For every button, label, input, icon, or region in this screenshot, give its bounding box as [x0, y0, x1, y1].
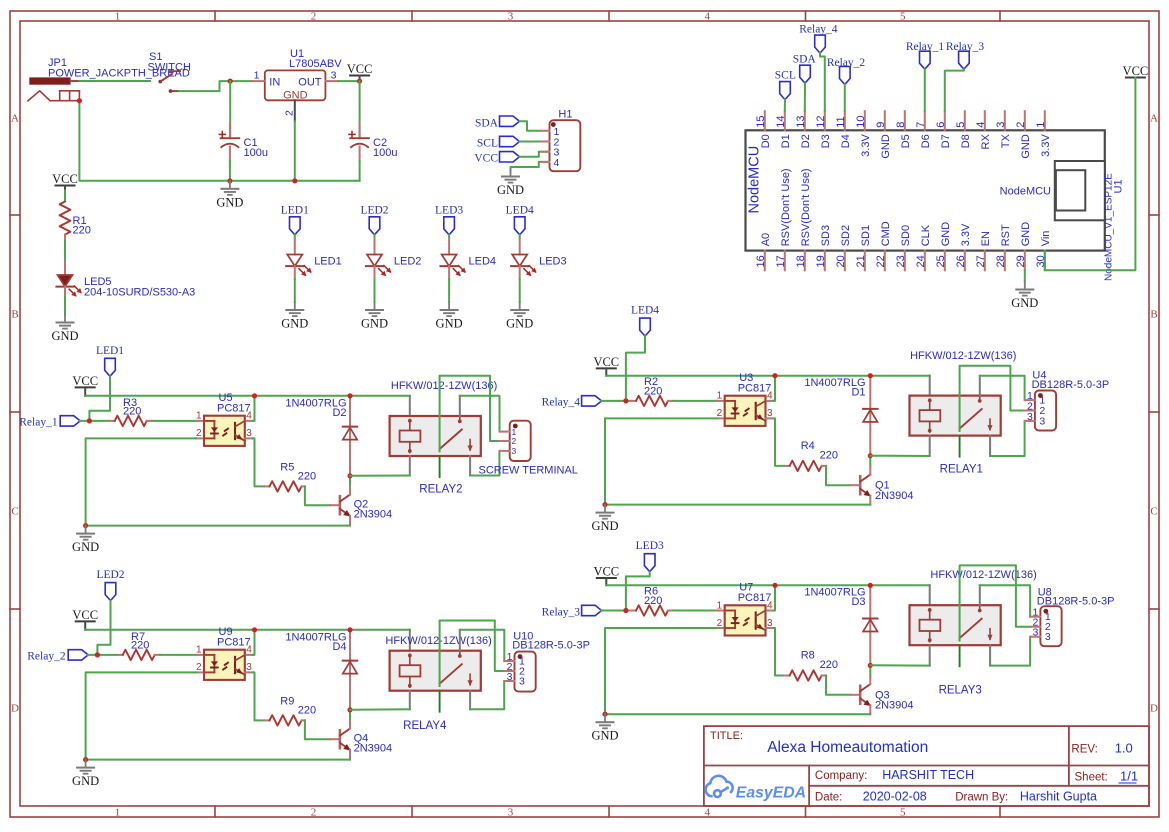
- svg-text:GND: GND: [880, 134, 892, 159]
- NodeMCU pin 12: [824, 111, 826, 130]
- relay NC pin: [469, 691, 471, 710]
- emitter wire: [869, 496, 871, 505]
- collector wire: [349, 710, 351, 721]
- LED LED1: [294, 239, 296, 255]
- svg-text:CMD: CMD: [880, 221, 892, 246]
- resistor R1: [60, 202, 71, 235]
- NodeMCU pin 4: [984, 111, 986, 130]
- svg-text:D8: D8: [960, 134, 972, 148]
- svg-text:4: 4: [554, 157, 560, 169]
- wire diode junction to coil: [870, 455, 929, 457]
- ground: [294, 302, 296, 309]
- relay coil top wire: [409, 630, 411, 651]
- wire SDA to D2: [804, 83, 806, 111]
- NodeMCU pin 18: [804, 251, 806, 271]
- NodeMCU pin 7: [924, 111, 926, 130]
- wire VCC to R1: [64, 191, 66, 202]
- svg-text:RELAY3: RELAY3: [939, 685, 982, 697]
- wire LED4 to node: [626, 336, 645, 401]
- svg-text:1: 1: [196, 645, 202, 656]
- wire LED1 to node: [89, 376, 110, 421]
- wire common to connector pin2: [440, 621, 505, 686]
- wire NO to connector pin1: [980, 585, 1031, 616]
- svg-text:18: 18: [795, 255, 807, 267]
- svg-text:GND: GND: [506, 317, 533, 331]
- svg-text:220: 220: [644, 595, 662, 607]
- NodeMCU pin 21: [864, 251, 866, 271]
- NodeMCU pin 6: [944, 111, 946, 130]
- wire pin3 to R5: [253, 438, 265, 486]
- svg-text:2: 2: [284, 110, 296, 116]
- relay NO pin wire: [979, 585, 981, 605]
- junction: [228, 79, 233, 84]
- svg-text:220: 220: [123, 406, 141, 418]
- emitter wire: [869, 705, 871, 714]
- svg-text:6: 6: [935, 122, 947, 128]
- svg-text:2N3904: 2N3904: [354, 509, 393, 521]
- screw terminal connector: [510, 421, 531, 461]
- VCC symbol: [76, 620, 95, 622]
- svg-text:1: 1: [717, 600, 723, 611]
- svg-text:Alexa Homeautomation: Alexa Homeautomation: [767, 739, 928, 756]
- svg-text:3: 3: [995, 122, 1007, 128]
- wire NC to connector pin3: [990, 637, 1030, 666]
- svg-text:L7805ABV: L7805ABV: [289, 58, 342, 70]
- svg-text:R8: R8: [801, 650, 815, 662]
- wire U1 out to VCC node: [338, 80, 360, 82]
- svg-text:Relay_3: Relay_3: [542, 606, 581, 618]
- ground: [604, 714, 606, 721]
- wire led to ground: [294, 279, 296, 302]
- svg-text:EN: EN: [980, 231, 992, 246]
- VCC symbol: [56, 185, 75, 187]
- NodeMCU pin 17: [784, 251, 786, 271]
- svg-text:REV:: REV:: [1071, 744, 1097, 756]
- junction: [77, 98, 82, 103]
- junction: [357, 79, 362, 84]
- svg-text:U1: U1: [1113, 179, 1125, 193]
- svg-text:VCC: VCC: [52, 172, 78, 186]
- wire Relay_4 to D3: [820, 53, 825, 111]
- svg-text:2020-02-08: 2020-02-08: [863, 790, 927, 804]
- svg-text:1: 1: [254, 70, 260, 82]
- svg-text:IN: IN: [269, 76, 280, 88]
- svg-text:10: 10: [855, 116, 867, 128]
- ground: [85, 760, 87, 767]
- svg-text:Vin: Vin: [1040, 231, 1052, 247]
- wire NC to connector pin3: [470, 681, 504, 709]
- svg-text:C: C: [1150, 506, 1157, 518]
- svg-text:DB128R-5.0-3P: DB128R-5.0-3P: [512, 640, 590, 652]
- svg-text:D3: D3: [851, 596, 865, 608]
- NodeMCU pin 5: [964, 111, 966, 130]
- svg-text:100u: 100u: [373, 147, 397, 159]
- junction: [252, 627, 257, 632]
- diode D2 1N4007RLG: [349, 396, 351, 476]
- svg-text:D6: D6: [920, 134, 932, 148]
- relay coil top wire: [929, 585, 931, 605]
- wire R1 to LED5: [64, 235, 66, 242]
- svg-text:GND: GND: [591, 519, 618, 533]
- svg-text:2: 2: [311, 11, 317, 23]
- wire led to ground: [374, 279, 376, 302]
- svg-text:D4: D4: [332, 641, 346, 653]
- svg-text:TX: TX: [1000, 134, 1012, 149]
- junction: [347, 707, 352, 712]
- svg-text:VCC: VCC: [1123, 64, 1149, 78]
- junction: [347, 473, 352, 478]
- wire Relay_2 to D4: [844, 85, 846, 112]
- wire pin4 to rail: [773, 585, 775, 610]
- wire SDA to H1 pin1: [520, 121, 542, 131]
- ground rail wire: [86, 525, 350, 527]
- NodeMCU pin 10: [864, 111, 866, 130]
- svg-text:3: 3: [246, 428, 252, 439]
- emitter wire: [349, 516, 351, 526]
- svg-text:LED3: LED3: [539, 255, 567, 267]
- wire pin3 to R9: [253, 672, 265, 720]
- svg-text:3: 3: [508, 807, 514, 819]
- NodeMCU pin 8: [904, 111, 906, 130]
- svg-text:4: 4: [767, 391, 773, 402]
- svg-text:HARSHIT TECH: HARSHIT TECH: [882, 768, 974, 782]
- wire Relay_1 to D6: [924, 69, 926, 111]
- wire LED1 flag to led: [294, 235, 296, 239]
- svg-text:3: 3: [508, 11, 514, 23]
- svg-text:LED1: LED1: [96, 345, 124, 357]
- relay coil bottom wire: [409, 691, 411, 710]
- svg-text:24: 24: [915, 255, 927, 267]
- svg-text:LED2: LED2: [96, 569, 124, 581]
- NodeMCU pin 20: [844, 251, 846, 271]
- svg-text:VCC: VCC: [474, 153, 498, 165]
- svg-text:220: 220: [644, 386, 662, 398]
- svg-text:1: 1: [1035, 122, 1047, 128]
- svg-text:GND: GND: [361, 317, 388, 331]
- svg-text:SCREW TERMINAL: SCREW TERMINAL: [479, 465, 578, 477]
- svg-text:D3: D3: [820, 134, 832, 148]
- VCC symbol: [350, 75, 369, 77]
- wire diode junction to coil: [350, 708, 410, 711]
- junction: [602, 712, 607, 717]
- power jack JP1: [29, 77, 70, 84]
- resistor R7 220: [117, 654, 122, 656]
- ground rail wire: [605, 504, 870, 506]
- svg-text:VCC: VCC: [72, 608, 98, 622]
- NodeMCU esp module rect: [1055, 161, 1105, 220]
- junction: [623, 398, 628, 403]
- U1 pin 3: [325, 80, 338, 82]
- NodeMCU pin 27: [984, 251, 986, 271]
- svg-text:LED3: LED3: [435, 204, 463, 216]
- VCC rail wire: [85, 629, 410, 631]
- wire pin29 to ground: [1024, 270, 1026, 281]
- ground rail wire: [605, 713, 870, 715]
- collector wire: [869, 665, 871, 676]
- relay common pin: [959, 645, 961, 666]
- relay coil top wire: [929, 376, 931, 396]
- svg-text:GND: GND: [940, 222, 952, 247]
- NodeMCU pin 13: [804, 111, 806, 130]
- wire NO to connector pin1: [460, 396, 500, 432]
- svg-text:VCC: VCC: [593, 565, 619, 579]
- wire pin3 to R8: [773, 628, 784, 676]
- wire Relay_3 to D7: [945, 69, 964, 111]
- transistor Q4 2N3904: [330, 738, 340, 740]
- junction: [623, 608, 628, 613]
- svg-text:22: 22: [875, 255, 887, 267]
- transistor Q2 2N3904: [330, 504, 340, 506]
- wire LED3 to node: [626, 572, 650, 611]
- svg-text:A0: A0: [760, 233, 772, 246]
- NodeMCU pin 29: [1024, 251, 1026, 271]
- svg-text:17: 17: [775, 255, 787, 267]
- svg-text:D: D: [1150, 702, 1158, 714]
- VCC symbol: [76, 386, 95, 388]
- svg-text:27: 27: [975, 255, 987, 267]
- wire Relay_1 to resistor: [80, 420, 109, 422]
- svg-text:16: 16: [755, 255, 767, 267]
- NodeMCU pin 25: [944, 251, 946, 271]
- resistor R9 220: [265, 719, 270, 721]
- ground: [510, 169, 512, 176]
- svg-text:RX: RX: [980, 134, 992, 150]
- svg-text:R9: R9: [280, 696, 294, 708]
- svg-text:GND: GND: [281, 317, 308, 331]
- svg-text:2N3904: 2N3904: [354, 743, 393, 755]
- junction: [252, 393, 257, 398]
- wire Relay_4 to resistor: [601, 400, 630, 402]
- VCC rail wire: [85, 395, 410, 397]
- svg-text:4: 4: [705, 807, 711, 819]
- svg-text:DB128R-5.0-3P: DB128R-5.0-3P: [1032, 379, 1110, 391]
- ground: [374, 302, 376, 309]
- wire pin2 to ground: [86, 672, 196, 759]
- svg-text:1: 1: [115, 807, 121, 819]
- junction: [95, 652, 100, 657]
- svg-text:GND: GND: [1020, 222, 1032, 247]
- svg-text:HFKW/012-1ZW(136): HFKW/012-1ZW(136): [385, 635, 491, 647]
- wire R5 to transistor base: [305, 486, 330, 505]
- svg-text:204-10SURD/S530-A3: 204-10SURD/S530-A3: [84, 286, 195, 298]
- wire R2 to optocoupler: [673, 400, 716, 402]
- svg-text:GND: GND: [436, 317, 463, 331]
- svg-text:19: 19: [815, 255, 827, 267]
- transistor Q1 2N3904: [850, 484, 860, 486]
- transistor Q3 2N3904: [850, 694, 860, 696]
- junction: [347, 393, 352, 398]
- wire common to connector pin2: [960, 565, 1031, 640]
- svg-text:GND: GND: [1020, 134, 1032, 159]
- NodeMCU pin 19: [824, 251, 826, 271]
- ground: [229, 181, 231, 188]
- svg-text:GND: GND: [216, 195, 243, 209]
- svg-text:29: 29: [1015, 255, 1027, 267]
- svg-text:EasyEDA: EasyEDA: [736, 784, 806, 801]
- svg-text:RELAY1: RELAY1: [940, 464, 983, 476]
- svg-text:3: 3: [519, 675, 525, 687]
- capacitor C2: [359, 123, 361, 138]
- wire pin2 to ground: [605, 418, 717, 504]
- svg-text:LED4: LED4: [506, 204, 534, 216]
- ground: [604, 505, 606, 512]
- NodeMCU pin 1: [1044, 111, 1046, 130]
- junction: [868, 663, 873, 668]
- svg-text:Harshit Gupta: Harshit Gupta: [1020, 790, 1097, 804]
- svg-text:11: 11: [835, 116, 847, 127]
- wire LED4 flag to led: [519, 235, 521, 239]
- ground: [64, 315, 66, 322]
- junction: [87, 418, 92, 423]
- NodeMCU pin 11: [844, 111, 846, 130]
- svg-text:VCC: VCC: [72, 374, 98, 388]
- ground rail wire: [79, 101, 359, 181]
- wire Relay_3 to resistor: [601, 610, 630, 612]
- diode D3 1N4007RLG: [869, 585, 871, 665]
- NodeMCU pin 3: [1004, 111, 1006, 130]
- svg-text:D: D: [11, 702, 19, 714]
- wire R9 to transistor base: [305, 720, 330, 739]
- relay NC pin: [989, 436, 991, 456]
- svg-text:3.3V: 3.3V: [1040, 134, 1052, 157]
- junction: [292, 178, 297, 183]
- svg-text:CLK: CLK: [920, 224, 932, 246]
- relay coil top wire: [409, 396, 411, 416]
- svg-text:15: 15: [755, 116, 767, 128]
- resistor R6 220: [631, 610, 636, 612]
- relay NC pin: [989, 645, 991, 665]
- svg-text:2N3904: 2N3904: [875, 490, 914, 502]
- NodeMCU pin 15: [764, 111, 766, 130]
- wire R8 to transistor base: [826, 676, 850, 695]
- svg-text:SCL: SCL: [477, 138, 498, 150]
- svg-text:Date:: Date:: [815, 792, 843, 804]
- VCC symbol: [597, 577, 616, 579]
- relay NO pin wire: [459, 396, 461, 416]
- capacitor C1: [229, 123, 231, 138]
- resistor R4 220: [785, 465, 790, 467]
- svg-text:B: B: [1150, 309, 1157, 321]
- relay NC pin: [469, 456, 471, 476]
- wire Relay_2 to resistor: [88, 654, 117, 656]
- diode D4 1N4007RLG: [349, 630, 351, 710]
- svg-text:8: 8: [895, 122, 907, 128]
- svg-text:1/1: 1/1: [1120, 769, 1138, 784]
- svg-text:H1: H1: [558, 109, 572, 121]
- relay common pin: [959, 436, 961, 457]
- wire diode junction to coil: [870, 664, 929, 666]
- svg-text:3: 3: [1045, 631, 1051, 643]
- svg-text:3: 3: [507, 671, 513, 683]
- svg-text:LED1: LED1: [281, 204, 309, 216]
- svg-text:26: 26: [955, 255, 967, 267]
- svg-text:1: 1: [115, 11, 121, 23]
- svg-text:5: 5: [900, 11, 906, 23]
- svg-text:LED3: LED3: [636, 540, 664, 552]
- svg-text:3: 3: [1039, 415, 1045, 427]
- NodeMCU pin 30: [1044, 251, 1046, 271]
- junction: [347, 627, 352, 632]
- svg-text:SDA: SDA: [475, 117, 499, 129]
- svg-text:21: 21: [855, 255, 867, 267]
- junction: [868, 373, 873, 378]
- svg-text:Relay_4: Relay_4: [542, 397, 581, 409]
- svg-text:LED4: LED4: [469, 255, 497, 267]
- wire R4 to transistor base: [826, 466, 850, 485]
- svg-text:2: 2: [311, 807, 317, 819]
- svg-text:VCC: VCC: [593, 355, 619, 369]
- wire NC to connector pin3: [990, 421, 1025, 456]
- svg-text:HFKW/012-1ZW(136): HFKW/012-1ZW(136): [930, 569, 1036, 581]
- wire diode junction to coil: [350, 475, 410, 477]
- svg-text:2: 2: [1015, 122, 1027, 128]
- svg-text:Sheet:: Sheet:: [1075, 772, 1108, 784]
- svg-text:4: 4: [975, 122, 987, 128]
- junction: [868, 453, 873, 458]
- svg-text:SD1: SD1: [860, 225, 872, 246]
- wire NO to connector pin1: [460, 630, 505, 661]
- relay NO pin wire: [979, 376, 981, 396]
- svg-text:25: 25: [935, 255, 947, 267]
- relay common pin: [439, 691, 441, 712]
- svg-text:SD3: SD3: [820, 225, 832, 246]
- svg-text:GND: GND: [51, 329, 78, 343]
- wire led to ground: [519, 279, 521, 302]
- NodeMCU pin 28: [1004, 251, 1006, 271]
- svg-text:VCC: VCC: [347, 62, 373, 76]
- svg-text:2N3904: 2N3904: [875, 699, 914, 711]
- U1 pin 2: [294, 100, 296, 121]
- svg-text:A: A: [11, 113, 19, 125]
- svg-text:4: 4: [246, 645, 252, 656]
- ground: [1024, 282, 1026, 289]
- resistor R2 220: [631, 400, 636, 402]
- junction: [83, 757, 88, 762]
- relay coil bottom wire: [929, 436, 931, 456]
- svg-text:GND: GND: [1011, 296, 1038, 310]
- NodeMCU pin 23: [904, 251, 906, 271]
- NodeMCU pin 22: [884, 251, 886, 271]
- wire LED5 to ground: [64, 297, 66, 315]
- svg-text:R4: R4: [801, 440, 815, 452]
- svg-text:HFKW/012-1ZW(136): HFKW/012-1ZW(136): [910, 350, 1016, 362]
- wire LED3 flag to led: [448, 235, 450, 239]
- junction: [602, 502, 607, 507]
- LED LED3: [519, 239, 521, 255]
- svg-text:Relay_2: Relay_2: [27, 651, 66, 663]
- wire LED2 to node: [97, 601, 110, 655]
- svg-text:RSV(Don't Use): RSV(Don't Use): [800, 168, 812, 246]
- svg-text:Company:: Company:: [815, 770, 867, 782]
- wire NO to connector pin1: [980, 376, 1025, 400]
- relay coil bottom wire: [409, 456, 411, 476]
- NodeMCU pin 16: [764, 251, 766, 271]
- svg-text:28: 28: [995, 255, 1007, 267]
- wire U1 pin2 down: [294, 121, 296, 181]
- wire switch to C1/U1: [179, 81, 252, 91]
- svg-text:SCL: SCL: [775, 69, 796, 81]
- svg-text:B: B: [11, 309, 18, 321]
- wire pin3 to R4: [773, 418, 784, 466]
- EasyEDA logo: [706, 776, 733, 797]
- wire LED2 flag to led: [374, 235, 376, 239]
- svg-text:1.0: 1.0: [1115, 741, 1133, 756]
- wire R3 to optocoupler: [152, 420, 196, 422]
- svg-text:3: 3: [1027, 411, 1033, 423]
- ground rail wire: [86, 759, 350, 761]
- svg-text:7: 7: [915, 122, 927, 128]
- svg-text:D1: D1: [780, 134, 792, 148]
